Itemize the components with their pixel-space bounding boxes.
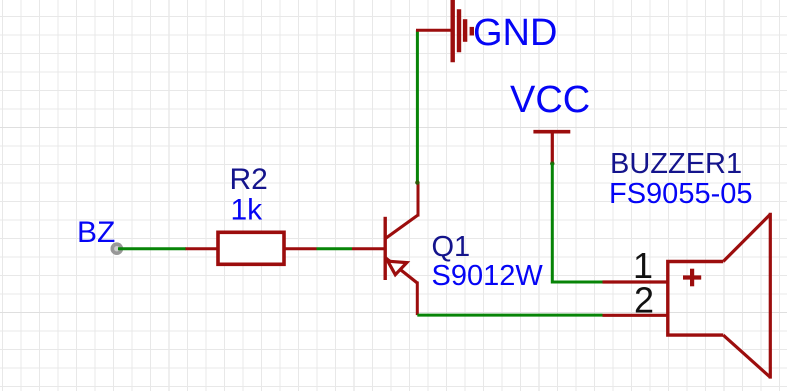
buzzer pin 1 line <box>603 280 668 283</box>
wire R2 to Q1 base <box>317 247 353 250</box>
transistor Q1 collector lead <box>417 182 420 217</box>
transistor Q1 emitter diagonal <box>385 257 418 283</box>
wire collector to GND <box>416 30 419 183</box>
ground bar 4 <box>470 27 474 36</box>
wire VCC to buzzer pin 1 <box>552 163 602 282</box>
node collector wire end <box>415 180 419 184</box>
ground GND pin line <box>416 29 453 32</box>
transistor Q1 base bar <box>384 217 387 280</box>
buzzer BUZZER1 body rectangle <box>668 262 723 336</box>
svg-text:Q1: Q1 <box>432 231 471 263</box>
net port dot <box>111 242 124 255</box>
buzzer horn top diagonal <box>723 214 770 261</box>
svg-text:FS9055-05: FS9055-05 <box>609 178 753 210</box>
svg-text:BZ: BZ <box>77 216 115 249</box>
buzzer horn bottom diagonal <box>723 335 770 377</box>
transistor Q1 emitter lead <box>416 282 419 316</box>
buzzer pin 2 line <box>603 314 668 317</box>
svg-text:GND: GND <box>473 12 557 54</box>
resistor R2 right pin <box>285 247 317 250</box>
svg-text:R2: R2 <box>230 163 268 196</box>
power flag VCC bar <box>533 130 570 134</box>
transistor Q1 collector diagonal <box>385 215 418 239</box>
wire emitter to buzzer pin 2 <box>417 314 602 317</box>
resistor R2 left pin <box>186 247 218 250</box>
svg-text:2: 2 <box>634 280 654 321</box>
transistor Q1 emitter arrow <box>388 261 407 275</box>
buzzer polarity plus <box>683 275 701 279</box>
wire BZ to R2 <box>118 247 186 250</box>
ground bar 3 <box>463 19 467 42</box>
svg-text:BUZZER1: BUZZER1 <box>610 148 742 180</box>
svg-text:S9012W: S9012W <box>432 260 544 292</box>
svg-text:VCC: VCC <box>510 79 590 121</box>
transistor Q1 base pin <box>352 247 385 250</box>
svg-text:1k: 1k <box>231 194 264 227</box>
ground bar 2 <box>457 9 461 52</box>
resistor R2 body <box>218 232 284 264</box>
buzzer horn mouth <box>769 213 772 379</box>
ground bar 1 <box>451 0 455 62</box>
node VCC stem end <box>550 161 554 165</box>
power flag VCC stem <box>551 132 554 164</box>
